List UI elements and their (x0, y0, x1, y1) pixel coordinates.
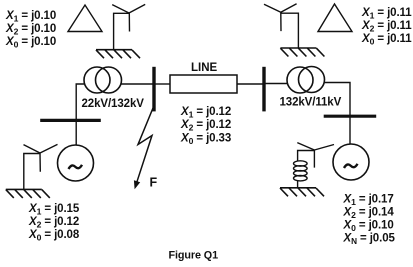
svg-text:Figure Q1: Figure Q1 (169, 250, 219, 262)
ground (bottom left) (6, 189, 50, 198)
bus 1 (132kV, vertical bar) (152, 67, 155, 112)
generator G1 ac symbol (69, 165, 83, 169)
label generator G1 reactances (5, 10, 56, 50)
wye winding symbol G2 (297, 143, 334, 168)
transformer T1 (84, 67, 122, 93)
wye winding symbol T1 (112, 4, 145, 31)
wire wye T2 neutral to ground (281, 13, 299, 48)
svg-text:X2 = j0.12: X2 = j0.12 (28, 216, 79, 230)
generator G1 (58, 145, 94, 181)
svg-text:X2 = j0.14: X2 = j0.14 (343, 207, 395, 221)
svg-text:X0 = j0.10: X0 = j0.10 (5, 36, 56, 50)
svg-text:LINE: LINE (191, 62, 218, 74)
generator G2 ac symbol (344, 164, 358, 168)
earthing reactor XN coil (294, 161, 308, 181)
svg-text:X1 = j0.12: X1 = j0.12 (180, 106, 231, 120)
delta winding symbol T2 (318, 4, 352, 32)
wye winding symbol G1 (24, 144, 58, 171)
ground (top right) (280, 48, 324, 57)
svg-text:X1 = j0.11: X1 = j0.11 (361, 7, 412, 21)
svg-text:132kV/11kV: 132kV/11kV (280, 97, 342, 109)
wire bus 1 to line (156, 83, 171, 85)
wye winding symbol T2 (264, 4, 297, 31)
svg-text:X0 = j0.10: X0 = j0.10 (343, 220, 394, 234)
wire bus 2 to transformer T2 (266, 83, 288, 85)
svg-text:X0 = j0.33: X0 = j0.33 (180, 133, 231, 147)
svg-text:X1 = j0.15: X1 = j0.15 (28, 203, 80, 217)
label line reactances (180, 106, 231, 146)
svg-text:X2 = j0.12: X2 = j0.12 (180, 119, 231, 133)
svg-text:F: F (150, 175, 158, 189)
generator G2 (333, 144, 369, 180)
fault arrow at bus 1 (137, 108, 153, 183)
svg-text:X2 = j0.10: X2 = j0.10 (5, 23, 56, 37)
wire wye T1 neutral to ground (114, 13, 129, 49)
wire line to bus 2 (237, 83, 263, 85)
wire coil to ground (297, 181, 299, 188)
svg-text:XN = j0.05: XN = j0.05 (343, 233, 396, 247)
svg-text:X1 = j0.17: X1 = j0.17 (343, 194, 394, 208)
svg-text:22kV/132kV: 22kV/132kV (82, 98, 145, 110)
label generator G2 reactances (bottom right) (343, 194, 396, 247)
wire T2 to generator G2 branch (325, 83, 351, 145)
ground (bottom right) (280, 188, 324, 197)
wire wye G2 neutral to earthing reactor (298, 151, 315, 162)
svg-text:X0 = j0.11: X0 = j0.11 (361, 33, 412, 47)
ground (top left) (96, 50, 140, 59)
svg-text:X2 = j0.11: X2 = j0.11 (361, 20, 412, 34)
svg-text:X1 = j0.10: X1 = j0.10 (5, 10, 56, 24)
bus 2 (132kV, vertical bar) (262, 67, 265, 112)
label generator G1 reactances (bottom left) (28, 203, 80, 243)
wire T1 left to generator G1 branch (76, 84, 84, 145)
delta winding symbol T1 (68, 5, 102, 32)
bus G2 (horizontal bar, 11kV) (324, 115, 377, 118)
transmission line box (170, 75, 237, 93)
bus G1 (horizontal bar, 22kV) (40, 119, 101, 122)
fault arrowhead (134, 180, 140, 189)
transformer T2 (287, 67, 325, 94)
wire T1 to bus 1 (122, 83, 153, 85)
svg-text:X0 = j0.08: X0 = j0.08 (28, 229, 80, 243)
wire wye G1 neutral to ground (24, 154, 40, 190)
label transformer T2 reactances (top right) (361, 7, 412, 47)
